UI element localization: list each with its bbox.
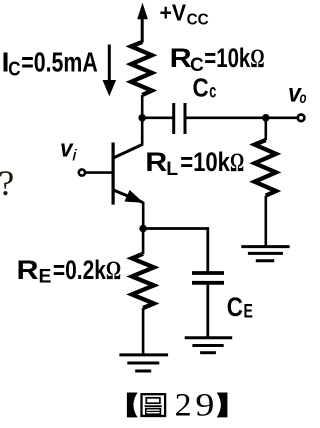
terminal vo <box>298 115 305 122</box>
svg-text:o: o <box>300 90 307 107</box>
svg-text:+V: +V <box>160 0 187 25</box>
svg-text:=10k: =10k <box>180 147 231 177</box>
wire Cc to vo <box>187 117 298 120</box>
wire collector vertical <box>141 95 144 145</box>
label RE=0.2kOhm <box>17 255 122 288</box>
svg-text:C: C <box>227 292 243 322</box>
node emitter junction <box>139 225 147 233</box>
label +VCC <box>160 0 210 28</box>
label vi <box>60 136 77 165</box>
caption figure 29 left bracket <box>127 393 138 418</box>
caption glyph tu (figure) <box>142 394 166 416</box>
svg-text:Ω: Ω <box>106 256 121 285</box>
svg-text:i: i <box>72 148 77 165</box>
label CE <box>227 292 253 323</box>
ground RE <box>119 355 168 371</box>
svg-text:E: E <box>244 302 253 323</box>
caption figure 29 right bracket <box>217 393 228 418</box>
node output junction <box>262 114 270 122</box>
terminal vi <box>79 169 85 175</box>
wire RE to ground <box>142 308 145 354</box>
svg-text:=10k: =10k <box>204 43 251 73</box>
label Cc <box>193 73 217 103</box>
wire RL to ground <box>264 196 267 246</box>
resistor RE <box>132 254 154 308</box>
svg-text:?: ? <box>0 163 14 203</box>
label RC=10kOhm <box>170 43 265 76</box>
wire emitter to RE <box>142 229 145 255</box>
wire emitter vertical <box>142 202 145 230</box>
svg-text:2: 2 <box>175 388 192 424</box>
svg-text:L: L <box>166 159 178 180</box>
svg-text:=0.5mA: =0.5mA <box>21 46 98 77</box>
wire RL top <box>264 118 267 140</box>
svg-text:C: C <box>8 59 20 81</box>
svg-text:Ω: Ω <box>230 148 244 177</box>
svg-text:c: c <box>209 82 216 103</box>
svg-text:Ω: Ω <box>250 44 264 73</box>
resistor RL <box>255 140 276 196</box>
svg-text:=0.2k: =0.2k <box>53 255 107 285</box>
capacitor Cc <box>174 103 185 134</box>
wire emitter to CE <box>143 229 208 273</box>
wire base <box>86 171 113 174</box>
svg-text:C: C <box>193 73 209 103</box>
resistor RC <box>131 42 152 95</box>
svg-text:CC: CC <box>187 11 209 28</box>
svg-text:R: R <box>17 255 39 285</box>
transistor Q1 <box>113 143 143 205</box>
svg-text:R: R <box>170 43 192 73</box>
wire CE to ground <box>206 283 209 337</box>
power supply +VCC arrow <box>137 3 148 43</box>
svg-text:E: E <box>39 267 52 288</box>
label RL=10kOhm <box>145 147 244 180</box>
current arrow IC <box>103 45 117 97</box>
capacitor CE <box>192 273 224 283</box>
ground RL <box>241 247 289 261</box>
label vo <box>288 80 307 108</box>
node collector junction <box>138 114 146 122</box>
ground CE <box>185 338 233 353</box>
label IC=0.5mA <box>2 46 98 80</box>
svg-text:9: 9 <box>195 388 214 424</box>
wire collector to Cc <box>142 117 173 120</box>
svg-text:R: R <box>145 147 167 177</box>
